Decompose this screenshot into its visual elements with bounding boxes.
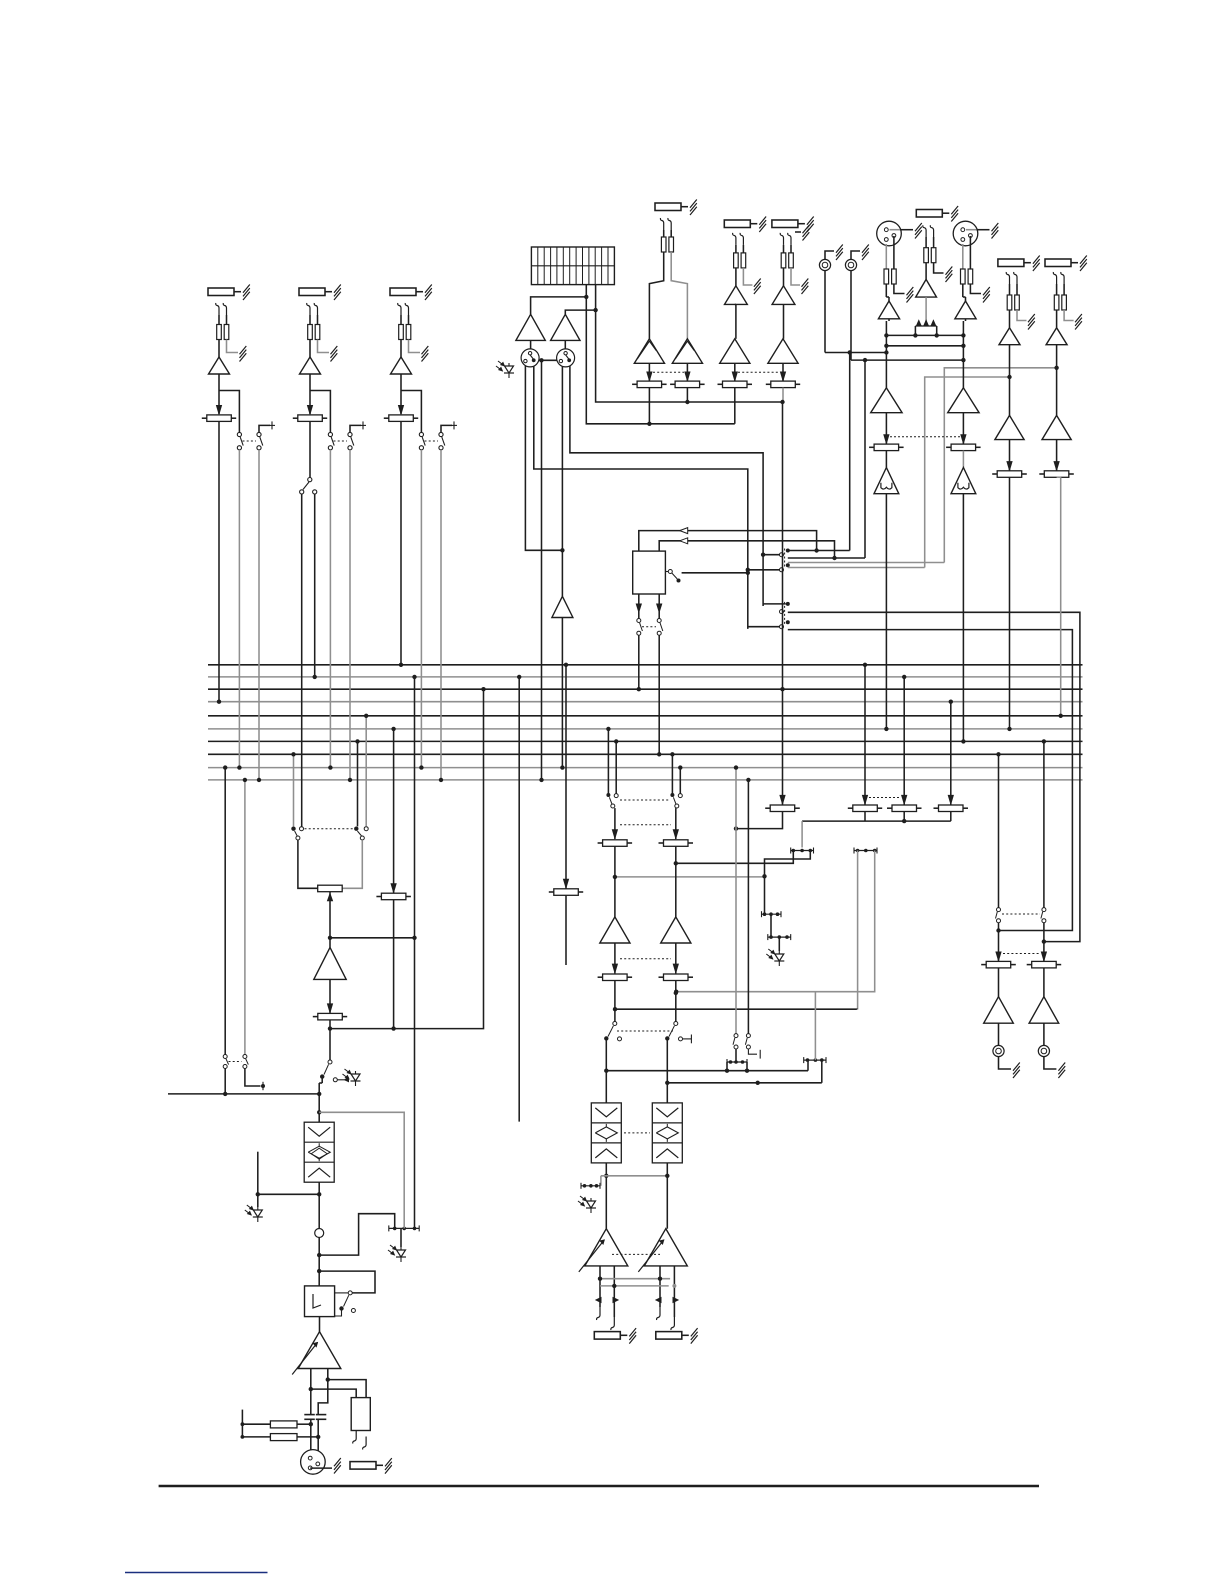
wire 2T block out L — [638, 594, 640, 618]
op-amp ch5 line amp — [1042, 415, 1071, 439]
LED control room — [778, 937, 780, 951]
wire channel 2 fader out to solo switch — [309, 422, 311, 478]
wire gang link S1 — [243, 440, 257, 442]
phone jack 2TK in L — [819, 259, 830, 270]
wire J6 sleeve to ground — [791, 268, 800, 285]
wire phones R to jack — [1043, 1023, 1045, 1045]
block 2T monitor input — [633, 551, 666, 594]
ground 2TK L — [825, 251, 834, 259]
fader aux master 2 — [853, 805, 878, 812]
capacitor master out B — [316, 1414, 327, 1416]
switch master mono B — [243, 1055, 247, 1059]
wire J5 to buffer — [735, 268, 737, 286]
op-amp monitor L — [516, 314, 545, 340]
wire channel 3 assign R to bus — [440, 450, 442, 780]
resistor pair channel 1 — [218, 315, 220, 325]
op-amp aux1 output (variable) — [585, 1229, 628, 1266]
switch aux2 select — [670, 793, 674, 797]
jack switch monitor L (phones insert) — [521, 349, 539, 367]
wire mono fader feed from bus 1 — [565, 665, 567, 889]
op-amp main R — [948, 388, 979, 413]
wire aux1 send tap — [615, 1008, 857, 1010]
jack pins aux1 out — [597, 1307, 600, 1320]
wire channel 2 assign L to bus — [329, 450, 331, 768]
fader main R — [951, 444, 976, 451]
wire relay sw links — [335, 1292, 348, 1294]
wire main R to fader — [962, 413, 964, 444]
wire ch5 buffer down — [1056, 345, 1058, 416]
wire bus line 5 — [208, 715, 1083, 717]
wire group1 pole L — [763, 554, 779, 556]
wire phantom to amp — [925, 263, 927, 280]
wire S3b to +terminal — [441, 425, 452, 432]
ground J6 — [802, 279, 809, 287]
LED peak indicator monitor — [508, 363, 510, 378]
switch phones R — [1042, 908, 1046, 912]
wire insert LED stub — [333, 1078, 337, 1082]
op-amp U2 (mix summing amp) — [672, 339, 702, 364]
jack contacts channel 3 — [398, 303, 401, 315]
wire aux2 EQ out — [666, 1163, 668, 1229]
op-amp phones R — [1029, 997, 1059, 1024]
fader master group 4 — [771, 381, 796, 388]
wire gang master faders 3-4 — [738, 371, 779, 373]
op-amp U3 (mix summing amp) — [720, 339, 750, 364]
LED master insert — [355, 1071, 357, 1086]
wire gang aux pots 2-3 — [869, 797, 900, 799]
fader aux master 1 — [770, 805, 795, 812]
wire 2TK L to line rail — [824, 271, 826, 353]
wire J4 right to sum amp R — [671, 252, 687, 339]
wire gang phones switches — [1002, 913, 1040, 915]
wire 2T L to bus 3 — [638, 635, 640, 689]
wire master source R feeds — [357, 741, 359, 826]
wire gang 2T mutes — [642, 626, 656, 628]
wire J5 sleeve to ground — [743, 268, 752, 285]
op-amp buffer channel 5 — [725, 286, 748, 305]
switch aux2 mute — [674, 1022, 678, 1026]
switch aux mon L — [734, 1034, 738, 1038]
wire mono amp to bus 9 — [561, 618, 563, 768]
wire master source L to pot — [298, 840, 318, 888]
wire channel 1 ring to ground — [227, 340, 239, 353]
wire meter R branch — [593, 308, 597, 312]
wire J10 to buffer — [1056, 310, 1058, 328]
wire main L to fader — [885, 413, 887, 444]
op-amp aux1 — [600, 917, 630, 943]
wire gang aux out amps — [612, 1253, 660, 1255]
switch master source L — [291, 827, 295, 831]
switch aux mon R — [746, 1034, 750, 1038]
jack contacts J5 — [733, 233, 736, 245]
wire master L tap from bus 9 — [224, 768, 226, 1055]
fader channel 2 — [298, 415, 323, 422]
node mid T-bar 3 — [762, 913, 782, 915]
switch S1a (channel 1 assign) — [237, 432, 241, 436]
op-amp master — [314, 947, 346, 979]
wire channel 2 assign R to bus — [349, 450, 351, 780]
wire channel 2 route A down to monitor select — [301, 494, 303, 827]
resistor pair mic 7 — [885, 244, 887, 269]
wire phantom amp to distribution bar — [925, 297, 927, 325]
wire group1 throw d — [788, 567, 925, 569]
connector J1 (channel 1 input jack label) — [208, 288, 234, 296]
jack contacts J10 — [1053, 272, 1056, 284]
jack pins aux2 out — [657, 1307, 660, 1320]
resistor pair mic 8 — [962, 244, 964, 269]
wire phones L junction — [998, 923, 1000, 962]
node aux out T-bar — [581, 1185, 600, 1187]
op-amp phones L — [984, 997, 1014, 1024]
wire bus3 tap to master — [330, 689, 484, 1028]
fader ch5 — [1044, 471, 1069, 478]
wire bus line 9 — [208, 767, 1083, 769]
wire bus line 1 — [208, 664, 1083, 666]
wire bus2 drop — [518, 677, 520, 1122]
op-amp A2 (channel 2 preamp) — [300, 357, 321, 374]
ground channel 3 input — [422, 346, 429, 354]
fader master balance pot — [318, 885, 343, 892]
wire channel 1 fader out to bus 4 — [218, 422, 220, 702]
wire group1 throw c — [788, 562, 945, 564]
wire master mono A out — [224, 1069, 226, 1094]
wire monitor L lever out — [534, 366, 748, 629]
wire ch5 fader to bus 5 — [1060, 477, 1062, 716]
op-amp aux2 — [661, 917, 691, 943]
connector aux2 output — [656, 1332, 682, 1340]
wire aux pot 4 feed from bus 4 — [950, 702, 952, 805]
switch master mono A — [223, 1055, 227, 1059]
wire ch4 buffer down — [1009, 345, 1011, 416]
fader ch4 — [997, 471, 1022, 478]
wire bus line 6 — [208, 728, 1083, 730]
wire mic link rail upper — [886, 334, 963, 336]
wire master to transformer — [318, 1238, 320, 1286]
wire bus line 10 — [208, 779, 1083, 781]
wire XLR8 pin1 to ground — [966, 229, 977, 231]
wire monitor R amp to jack — [564, 340, 566, 349]
wire group2 pole R — [748, 626, 780, 628]
LED master EQ tap — [257, 1207, 259, 1222]
wire main L fader to limiter — [885, 451, 887, 468]
wire bus line 8 — [208, 753, 1083, 755]
fader master group 1 — [637, 381, 662, 388]
wire phones R junction — [1043, 923, 1045, 962]
switch master source R — [354, 827, 358, 831]
ground 2TK R — [851, 251, 860, 259]
EQ block aux2 — [652, 1103, 682, 1163]
node aux T-bar A — [727, 1061, 747, 1063]
wire bar2 gray drop B — [676, 851, 875, 992]
wire channel 1 assign L to bus — [238, 450, 240, 768]
wire group1 throw b — [788, 557, 865, 559]
wire aux2 balanced out - — [673, 1266, 675, 1317]
phone jack phones R out — [1038, 1045, 1049, 1056]
fader master group 2 — [675, 381, 700, 388]
fader aux1 send — [603, 840, 628, 847]
wire aux2 amp to level — [675, 943, 677, 973]
op-amp A1 (channel 1 preamp) — [209, 357, 230, 374]
wire monitor link down to bus 10 — [541, 362, 543, 780]
op-amp main L — [871, 388, 902, 413]
wire aux1 R from bus 7 — [615, 741, 617, 793]
wire phones R feed from bus 7 — [1043, 741, 1045, 907]
wire channel 2 pre-fader send branch — [310, 391, 330, 433]
wire aux2 bar rail — [667, 1082, 822, 1084]
capacitor master out A — [304, 1414, 315, 1416]
wire aux pot 2/3 sum rail — [864, 812, 866, 822]
phone jack phones L out — [993, 1045, 1004, 1056]
fader master2 level — [381, 893, 406, 900]
wire aux1 amp to level — [614, 943, 616, 973]
switch monitor source group 1 — [786, 549, 790, 553]
wire bus2 tap to master — [414, 677, 416, 1229]
wire gang main faders — [890, 436, 960, 438]
wire aux mon R stub — [748, 1049, 757, 1054]
connector J6 (line input) — [772, 220, 798, 228]
wire master out main B — [318, 1369, 328, 1415]
wire J4 left to sum amp L — [649, 252, 663, 339]
wire gang aux mutes — [617, 1030, 673, 1032]
wire master amp to pot — [329, 979, 331, 1013]
jack contacts channel 2 — [307, 303, 310, 315]
connector J9 line input — [998, 259, 1024, 267]
wire aux mon R from bus 10 — [747, 780, 749, 1034]
fader channel 1 — [207, 415, 232, 422]
node mid T-bar 4 — [768, 936, 791, 938]
fader master level — [318, 1013, 343, 1020]
wire 2T block out R — [658, 594, 660, 618]
wire mix L select from bus 8 — [293, 754, 295, 826]
wire aux pot 1 out — [736, 812, 783, 829]
wire aux1 level down — [614, 981, 616, 1023]
wire bus line 3 — [208, 688, 1083, 690]
wire channel 3 preamp out — [400, 374, 402, 414]
connector aux1 output — [594, 1332, 620, 1340]
wire channel 3 pre-fader send branch — [401, 391, 421, 433]
jack switch monitor R (phones insert) — [557, 349, 575, 367]
node aux T-bar B — [804, 1059, 826, 1061]
op-amp A3 (channel 3 preamp) — [391, 357, 412, 374]
wire group1 throw a — [788, 550, 850, 552]
wire J10 sleeve ground — [1064, 310, 1074, 321]
wire channel 3 tip to preamp — [400, 340, 402, 358]
connector J10 line input — [1045, 259, 1071, 267]
wire sum amp 3 to fader — [734, 363, 736, 381]
wire buffer 6 to sum amp 4 — [783, 304, 785, 338]
fader aux2 send — [664, 840, 689, 847]
wire master wiper rail — [328, 936, 332, 940]
switch S2c (channel 2 routing) — [308, 478, 312, 482]
ground J5 — [754, 279, 761, 287]
resistor pair J4 — [663, 230, 665, 237]
wire aux2 L from bus 8 — [671, 754, 673, 793]
wire 2T R to bus 8 — [658, 635, 660, 754]
wire master EQ side tap — [258, 1193, 319, 1195]
wire main R fader to limiter — [962, 451, 964, 468]
wire gang aux levels — [620, 958, 671, 960]
resistor pair J9 — [1009, 284, 1011, 295]
wire 2T R in — [659, 541, 834, 558]
switch aux1 mute — [613, 1022, 617, 1026]
switch S1b (channel 1 assign) — [257, 432, 261, 436]
wire relay to master amp — [319, 1317, 321, 1332]
wire buffer 5 to sum amp 3 — [735, 304, 737, 338]
block DI transformer — [351, 1398, 370, 1431]
wire ctrl bar feed — [801, 821, 803, 847]
wire master solo tap — [319, 1214, 395, 1255]
wire channel 2 route B to bus 2 — [314, 494, 316, 677]
connector master out label — [350, 1462, 376, 1470]
wire aux pot 3 feed from bus 2 — [903, 677, 905, 805]
op-amp buffer channel 6 — [772, 286, 795, 305]
wire channel 1 preamp out — [218, 374, 220, 414]
wire aux pot 1 feed from bus 3 — [782, 689, 784, 805]
wire mic 7 ring to ground — [894, 284, 905, 294]
wire block switch link — [682, 572, 748, 574]
wire aux2 mute stub — [683, 1038, 692, 1040]
wire aux1 EQ out — [605, 1163, 607, 1229]
op-amp mic preamp 7 — [878, 301, 899, 319]
wire master out branch to DI B — [328, 1380, 366, 1398]
wire aux1 pot down — [614, 846, 616, 917]
wire aux EQ gray link — [601, 1175, 667, 1177]
ground channel 1 input — [240, 346, 247, 354]
wire 2T L in — [639, 531, 817, 552]
phone jack 2TK in R — [845, 259, 856, 270]
wire channel 3 ring to ground — [409, 340, 421, 353]
wire master EQ out — [318, 1182, 320, 1228]
op-amp mono monitor — [552, 596, 573, 617]
wire XLR7 pin1 to ground — [890, 229, 901, 231]
wire S2b to +terminal — [350, 425, 361, 432]
fader aux master 3 — [892, 805, 917, 812]
wire T-bar3 down — [764, 876, 766, 914]
wire group2 pole L — [763, 603, 786, 605]
LED aux — [590, 1198, 592, 1213]
XLR connector mic 7 — [877, 221, 902, 246]
fader phones R — [1032, 961, 1057, 968]
wire monitor R lever to mono amp — [561, 366, 563, 596]
wire master chain A — [321, 1077, 323, 1083]
wire bus6 to master2 pot — [393, 729, 395, 893]
XLR connector master out — [301, 1450, 326, 1475]
jack pins DI out — [353, 1431, 356, 1444]
wire mic 8 to main amp — [965, 319, 967, 321]
ground aux stub A — [795, 231, 801, 233]
wire channel 2 preamp out — [309, 374, 311, 414]
wire phantom bar to mic lines — [914, 326, 916, 335]
op-amp mic preamp 8 — [955, 301, 976, 319]
node master insert jack — [315, 1229, 324, 1238]
switch output relay — [348, 1291, 352, 1295]
wire control room L send — [788, 612, 1080, 941]
wire channel 2 tip to preamp — [309, 340, 311, 358]
wire channel 2 ring to ground — [318, 340, 330, 353]
ground phones L — [999, 1057, 1012, 1069]
fader aux2 level — [664, 974, 689, 981]
jack contacts phantom — [923, 225, 926, 237]
diodes aux2 out — [656, 1298, 661, 1303]
wire aux T-bar A feeds — [735, 1049, 737, 1062]
wire limiter R to bus 7 — [962, 494, 964, 742]
fader main L — [874, 444, 899, 451]
wire mic 8 to preamp — [962, 284, 964, 297]
wire aux1 to pot — [614, 808, 616, 839]
wire sum R rail (groups 2+4) — [596, 285, 783, 402]
wire gang aux pots — [620, 824, 671, 826]
op-amp U1 (mix summing amp) — [634, 339, 664, 364]
wire gang phones faders — [1003, 953, 1039, 955]
connector J3 (channel 3 input jack label) — [390, 288, 416, 296]
LED master out — [400, 1228, 402, 1247]
wire aux2 pot down — [675, 846, 677, 917]
wire ch5 to fader — [1056, 440, 1058, 471]
wire ch4 fader to bus 6 — [1009, 477, 1011, 729]
resistor pair channel 3 — [400, 315, 402, 325]
node master monitor T-bar — [389, 1227, 419, 1229]
wire master junction — [329, 1020, 331, 1060]
wire page footer rule — [159, 1485, 1039, 1487]
wire aux2 to pot — [675, 808, 677, 839]
jack contacts J6 — [780, 233, 783, 245]
wire sum amp 1 to fader — [648, 363, 650, 381]
wire aux T-bar B center — [814, 992, 816, 1060]
wire phones L to jack — [998, 1023, 1000, 1045]
resistor master out B — [297, 1436, 318, 1438]
wire link monitor jacks — [539, 359, 557, 361]
wire master mono B out — [245, 1069, 261, 1086]
wire monitor L amp to jack — [530, 340, 532, 349]
switch master insert — [328, 1060, 332, 1064]
op-amp monitor R — [551, 314, 580, 340]
op-amp U4 (mix summing amp) — [768, 339, 798, 364]
wire hyperlink underline — [125, 1572, 268, 1574]
op-amp phantom source — [916, 279, 937, 297]
wire master monitor gray tap — [319, 1112, 404, 1228]
wire J9 to buffer — [1009, 310, 1011, 328]
wire control room R send — [788, 630, 1073, 931]
wire sum amp 4 to fader — [782, 363, 784, 381]
switch phones L — [997, 908, 1001, 912]
wire J6 to buffer — [783, 268, 785, 286]
wire phantom right to ground — [934, 263, 944, 273]
wire mic 7 to main amp — [888, 319, 890, 321]
wire aux2 balanced out + — [659, 1266, 661, 1307]
wire master2 down — [393, 900, 395, 1029]
switch S3a (channel 3 assign) — [419, 432, 423, 436]
switch S2b (channel 2 assign) — [348, 432, 352, 436]
switch S2a (channel 2 assign) — [328, 432, 332, 436]
wire phones L to amp — [998, 968, 1000, 997]
wire gang aux EQs — [624, 1132, 650, 1134]
wire aux1 monitor tap — [615, 876, 765, 878]
wire master pot wiper — [329, 892, 331, 948]
resistor pair channel 2 — [309, 315, 311, 325]
ground channel 2 input — [331, 346, 338, 354]
wire master source R to pot — [342, 840, 362, 888]
wire S1b to +terminal — [259, 425, 270, 432]
wire bar2 gray drop A — [857, 851, 859, 1010]
wire mic link rail lower — [886, 345, 963, 347]
wire gang master faders 1-2 — [653, 371, 684, 373]
wire mic 7 to preamp — [885, 284, 887, 297]
wire gang aux selects — [620, 799, 669, 801]
wire line rail R — [851, 359, 963, 361]
connector J4 (stereo line input) — [655, 203, 681, 211]
wire aux2 R from bus 9 — [679, 768, 681, 794]
wire sum L rail (groups 1+3) — [586, 285, 735, 424]
